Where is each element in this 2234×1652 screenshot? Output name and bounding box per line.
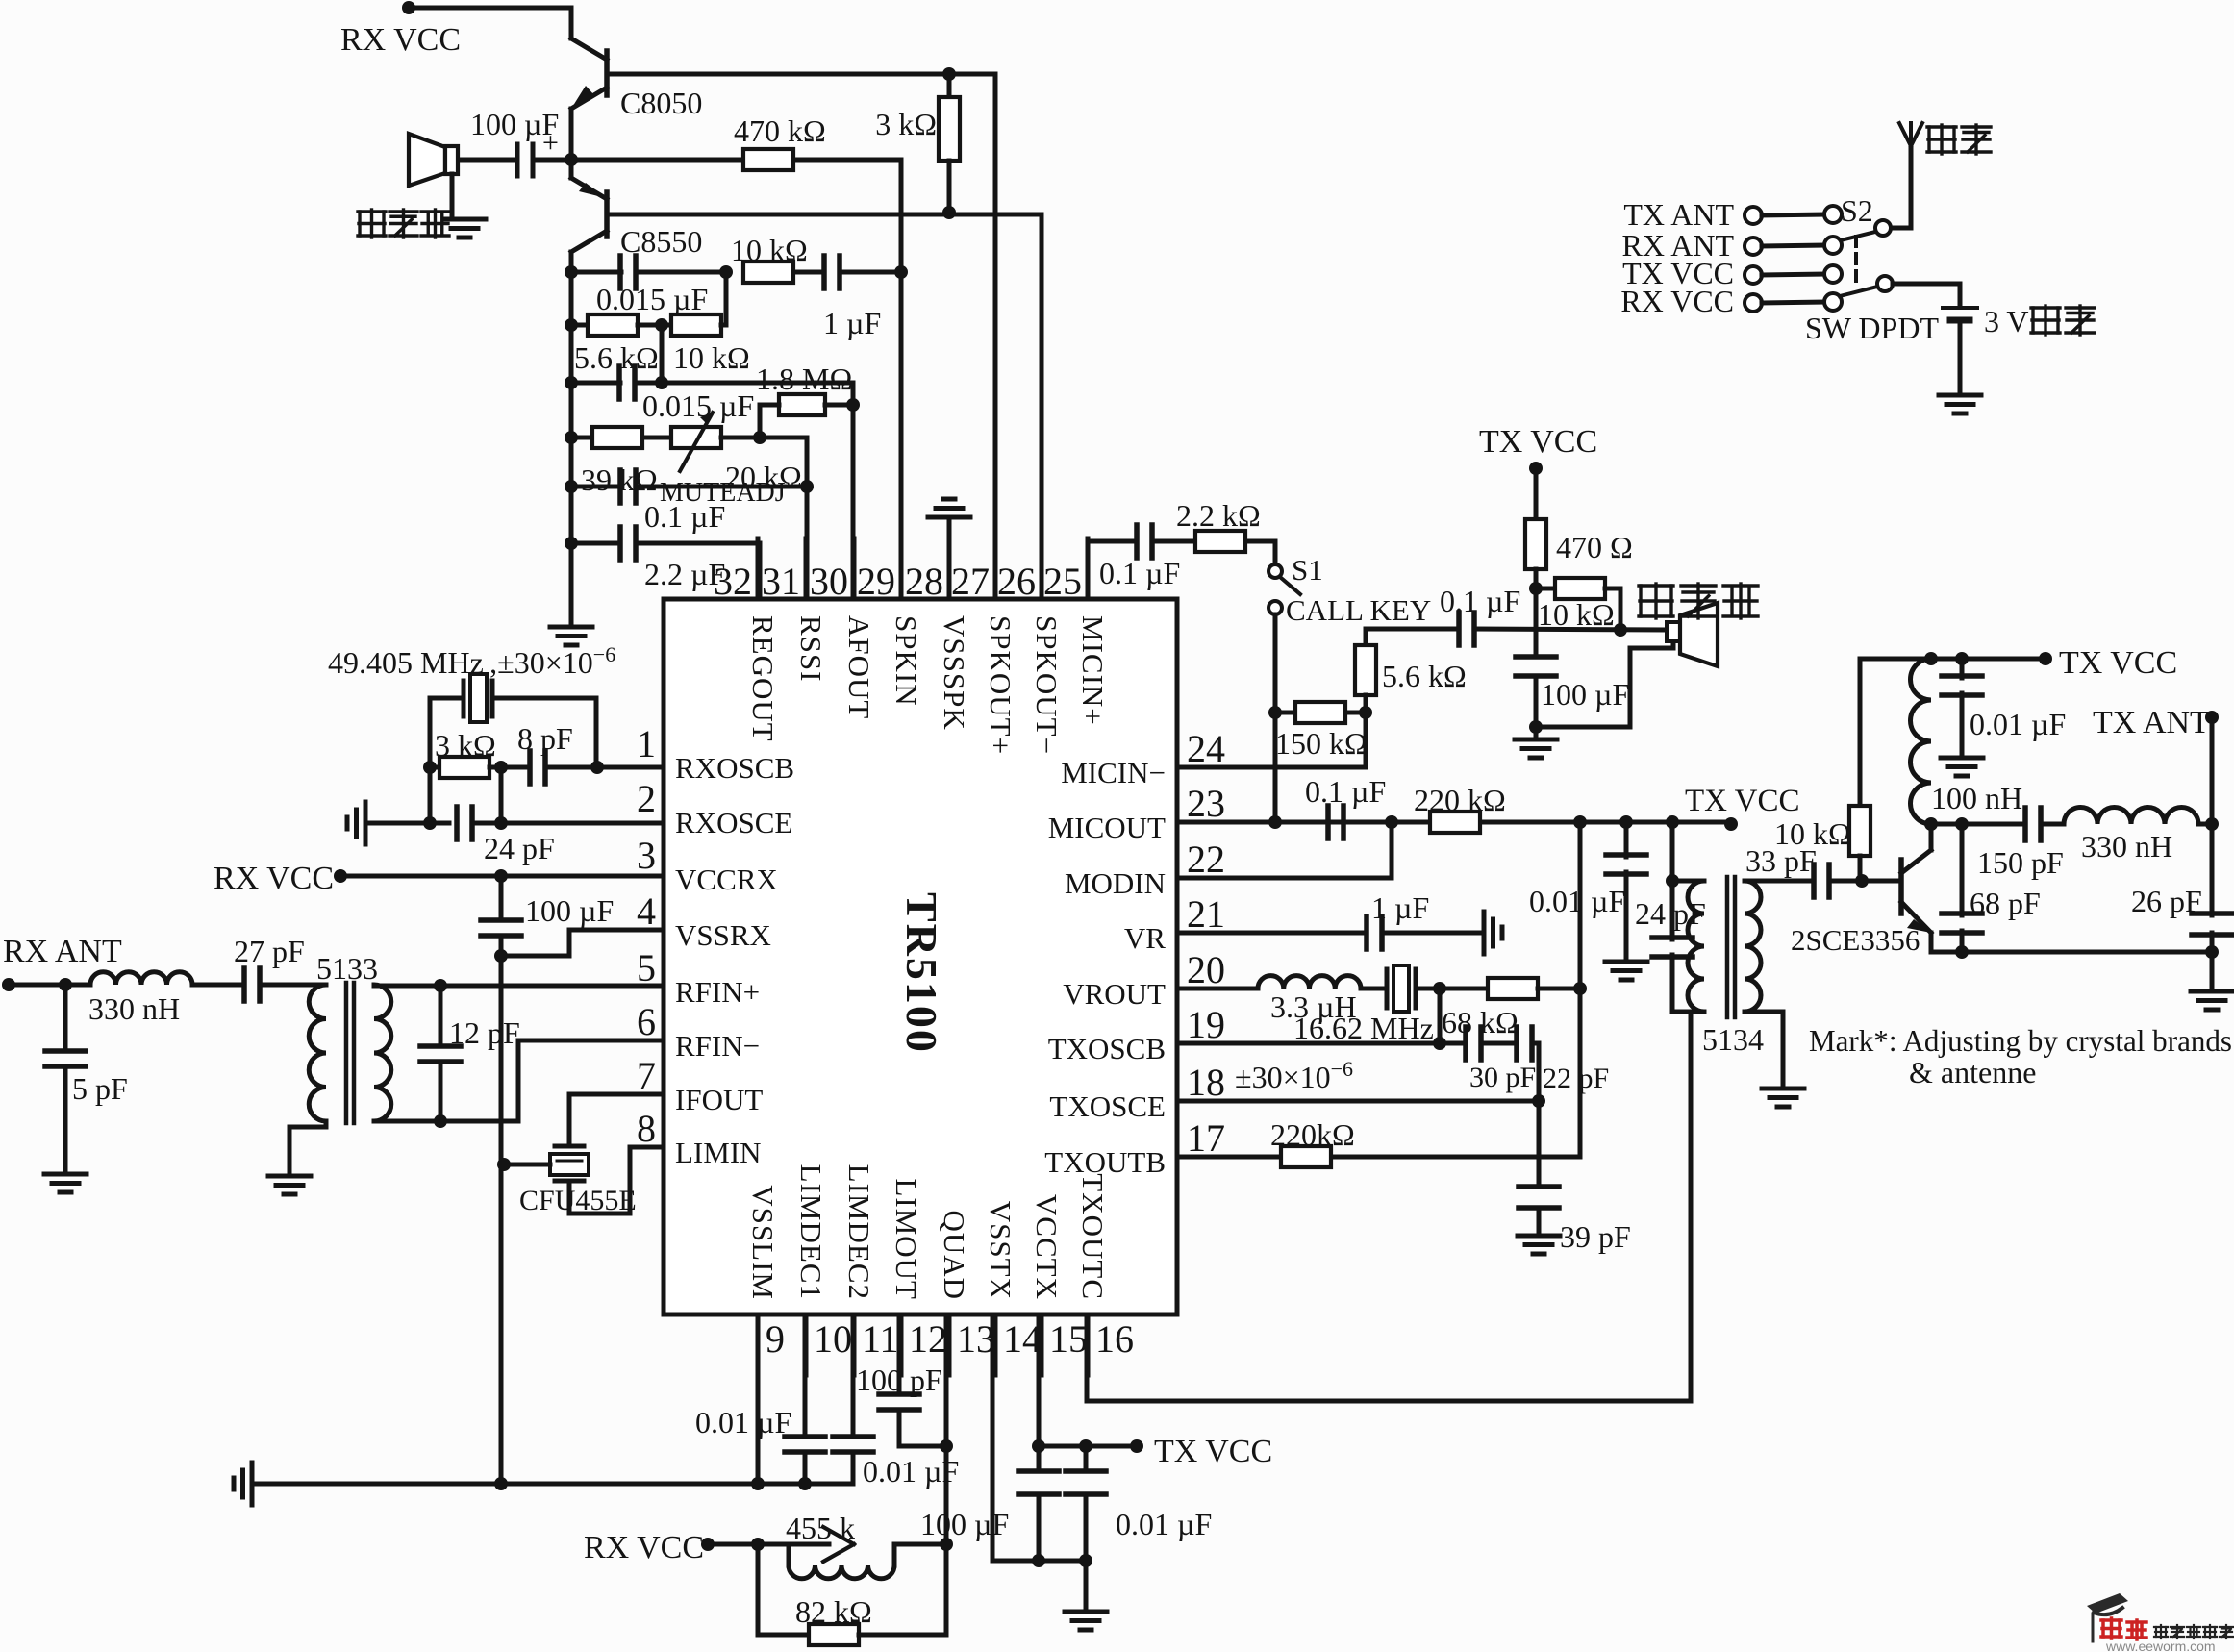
ground speaker bbox=[443, 219, 486, 238]
node row1 left bbox=[565, 265, 578, 279]
RX ANT terminal bbox=[2, 934, 122, 991]
ground 0.01uF TX bbox=[1941, 758, 1983, 776]
transformer T2 5134 primary bbox=[1672, 881, 1704, 1012]
wire Q2 base line bbox=[607, 213, 1042, 217]
wire pin13 down bbox=[940, 1314, 953, 1635]
wire row1-row2 link bbox=[724, 272, 729, 325]
pin 13 stub (bottom) bbox=[949, 1314, 995, 1375]
pin label MICIN− bbox=[1061, 756, 1166, 789]
node pin3 bypass bbox=[494, 869, 508, 883]
wire RX VCC to pin3 bbox=[340, 874, 664, 879]
capacitor 0.01uF (TX bypass) bbox=[1066, 1446, 1212, 1567]
pin 28 stub (top) bbox=[905, 538, 949, 603]
node Q2 base / 3k bottom bbox=[942, 206, 956, 219]
svg-text:0.015 µF: 0.015 µF bbox=[642, 388, 754, 423]
pin label VSSRX bbox=[675, 918, 771, 952]
node Q1 base / 3k top bbox=[942, 67, 956, 81]
svg-text:TX VCC: TX VCC bbox=[1685, 784, 1800, 818]
capacitor 100uF (RX bypass) bbox=[481, 876, 614, 956]
svg-text:14: 14 bbox=[1003, 1317, 1042, 1361]
pin label TXOUTB bbox=[1044, 1145, 1166, 1179]
node mic bias bbox=[1529, 582, 1543, 595]
ground battery bbox=[1939, 395, 1981, 413]
pin label LIMOUT bbox=[890, 1178, 923, 1300]
svg-text:& antenne: & antenne bbox=[1909, 1055, 2036, 1089]
switch S1 bbox=[1268, 541, 1431, 627]
capacitor 0.015uF row1 bbox=[571, 256, 726, 316]
svg-text:VSSTX: VSSTX bbox=[984, 1201, 1017, 1300]
capacitor 26pF bbox=[2131, 824, 2232, 952]
svg-text:16.62 MHz: 16.62 MHz bbox=[1293, 1011, 1434, 1045]
resistor 220k (txoutb) bbox=[1270, 1117, 1355, 1167]
battery BT1 3V bbox=[1943, 308, 1977, 395]
wire T2 secondary bottom bbox=[1745, 1012, 1783, 1089]
svg-text:6: 6 bbox=[637, 1000, 656, 1043]
TX ANT terminal bbox=[2093, 705, 2219, 824]
svg-text:VSSSPK: VSSSPK bbox=[938, 615, 971, 731]
svg-text:SW DPDT: SW DPDT bbox=[1805, 311, 1939, 345]
svg-text:0.01 µF: 0.01 µF bbox=[695, 1405, 791, 1439]
node 0.01uF TX top bbox=[1955, 652, 1969, 665]
label Mark note line1 bbox=[1809, 1023, 2232, 1058]
svg-text:RX VCC: RX VCC bbox=[584, 1530, 704, 1565]
svg-text:MICOUT: MICOUT bbox=[1048, 811, 1166, 844]
svg-text:TX VCC: TX VCC bbox=[2059, 645, 2177, 681]
potentiometer 20k MUTEADJ bbox=[642, 413, 807, 508]
capacitor 27pF bbox=[192, 934, 326, 1001]
pin 6 stub (left) bbox=[637, 1000, 656, 1043]
pin label AFOUT bbox=[842, 615, 876, 719]
wire to pin1 bbox=[545, 765, 664, 770]
svg-text:SPKOUT+: SPKOUT+ bbox=[984, 615, 1017, 755]
node collector bbox=[1924, 817, 1938, 831]
node 68k right bbox=[1573, 982, 1587, 995]
resistor 470R bbox=[1525, 468, 1633, 588]
svg-text:LIMDEC1: LIMDEC1 bbox=[794, 1164, 828, 1300]
pin 21 stub (right) bbox=[1187, 892, 1225, 936]
pin label RXOSCE bbox=[675, 806, 792, 839]
resistor 5.6k (mic) bbox=[1355, 629, 1467, 767]
svg-text:3 V: 3 V bbox=[1984, 304, 2029, 338]
svg-text:VROUT: VROUT bbox=[1063, 977, 1166, 1011]
node 24pF tap bbox=[1666, 815, 1679, 829]
svg-text:220kΩ: 220kΩ bbox=[1270, 1117, 1355, 1152]
wire pin22 step bbox=[1177, 822, 1392, 878]
pin 2 stub (left) bbox=[637, 777, 656, 820]
svg-text:TR5100: TR5100 bbox=[897, 892, 946, 1054]
RX VCC terminal (IF coil) bbox=[584, 1530, 715, 1565]
svg-text:0.01 µF: 0.01 µF bbox=[1970, 707, 2066, 741]
pin label IFOUT bbox=[675, 1083, 763, 1116]
svg-text:2SCE3356: 2SCE3356 bbox=[1791, 923, 1920, 957]
pin 31 stub (top) bbox=[762, 538, 806, 603]
svg-text:0.015 µF: 0.015 µF bbox=[596, 282, 708, 316]
node rail / long vertical bbox=[494, 1477, 508, 1490]
svg-text:RXOSCB: RXOSCB bbox=[675, 751, 794, 785]
capacitor 24pF bbox=[365, 807, 664, 865]
logo cap bbox=[2087, 1593, 2128, 1641]
IC U1 TR5100 body bbox=[664, 599, 1177, 1314]
label speaker (CJK) bbox=[358, 210, 449, 238]
svg-text:LIMDEC2: LIMDEC2 bbox=[842, 1164, 876, 1300]
resistor 220k (modin) bbox=[1343, 783, 1506, 833]
pin 11 stub (bottom) bbox=[854, 1314, 899, 1375]
crystal Y2 16.62MHz bbox=[1293, 965, 1488, 1045]
pin 22 stub (right) bbox=[1187, 838, 1225, 881]
logo chongchong red bbox=[2101, 1618, 2146, 1639]
logo url bbox=[2105, 1639, 2216, 1652]
svg-text:455 k: 455 k bbox=[786, 1511, 855, 1545]
svg-text:24: 24 bbox=[1187, 727, 1225, 770]
svg-text:5.6 kΩ: 5.6 kΩ bbox=[574, 340, 659, 375]
svg-text:+: + bbox=[542, 127, 559, 159]
node pin1 row mid bbox=[494, 761, 508, 774]
ground T1 primary bbox=[268, 1176, 311, 1194]
wire collector row bbox=[1931, 822, 2025, 827]
pin 24 stub (right) bbox=[1187, 727, 1225, 770]
node row2 mid bbox=[655, 318, 668, 332]
wire pin26 riser bbox=[1040, 214, 1044, 599]
pin 9 stub (bottom) bbox=[758, 1314, 785, 1375]
svg-text:2: 2 bbox=[637, 777, 656, 820]
svg-text:21: 21 bbox=[1187, 892, 1225, 936]
pin 16 stub (bottom) bbox=[1088, 1314, 1134, 1375]
svg-text:12 pF: 12 pF bbox=[449, 1015, 520, 1050]
inductor 330nH (TX) bbox=[2064, 808, 2212, 864]
wire mic bottom lead bbox=[1536, 640, 1673, 727]
pin 26 stub (top) bbox=[997, 538, 1042, 603]
capacitor 1uF row1 bbox=[793, 256, 901, 340]
pin label MICOUT bbox=[1048, 811, 1166, 844]
wire pin17 row bbox=[1177, 1155, 1580, 1160]
svg-text:39 pF: 39 pF bbox=[1560, 1219, 1631, 1254]
capacitor 100uF (TX bypass) bbox=[920, 1446, 1059, 1561]
pin 29 stub (top) bbox=[857, 538, 901, 603]
pin 3 stub (left) bbox=[637, 834, 656, 877]
pin label LIMDEC2 bbox=[842, 1164, 876, 1300]
capacitor 0.01uF pin11 bbox=[833, 1314, 959, 1489]
tunable inductor 455k IF coil bbox=[758, 1511, 946, 1579]
svg-text:TXOSCE: TXOSCE bbox=[1049, 1089, 1166, 1123]
pin label TXOUTC bbox=[1076, 1173, 1110, 1300]
svg-text:220 kΩ: 220 kΩ bbox=[1414, 783, 1506, 817]
pin 15 stub (bottom) bbox=[1042, 1314, 1088, 1375]
inductor 3.3uH bbox=[1177, 976, 1361, 1024]
node micout / modin bbox=[1385, 815, 1398, 829]
transformer T1 5133 label bbox=[316, 951, 378, 986]
capacitor 150pF bbox=[1977, 808, 2064, 880]
svg-text:CFU455E: CFU455E bbox=[519, 1185, 637, 1216]
svg-text:RFIN−: RFIN− bbox=[675, 1029, 760, 1063]
capacitor 2.2uF row6 bbox=[571, 527, 760, 591]
resistor 1.8M bbox=[756, 362, 860, 438]
node 100nH top bbox=[1924, 652, 1938, 665]
TX VCC terminal (mic) bbox=[1479, 424, 1597, 475]
svg-text:23: 23 bbox=[1187, 782, 1225, 825]
svg-text:12: 12 bbox=[909, 1317, 947, 1361]
node ant bbox=[9, 978, 90, 991]
switch S2 throw upper bbox=[1841, 220, 1891, 240]
svg-text:TX VCC: TX VCC bbox=[1479, 424, 1597, 460]
wire emitter rail bbox=[1931, 945, 2219, 959]
svg-text:68 pF: 68 pF bbox=[1970, 886, 2041, 920]
pin label QUAD bbox=[938, 1210, 971, 1300]
node pin1 row left bbox=[423, 761, 437, 774]
svg-text:RXOSCE: RXOSCE bbox=[675, 806, 792, 839]
resistor 10k (mic) bbox=[1536, 578, 1620, 632]
svg-text:VSSRX: VSSRX bbox=[675, 918, 771, 952]
capacitor 0.1uF row5 bbox=[571, 470, 807, 534]
pin label TXOSCB bbox=[1048, 1032, 1166, 1065]
svg-text:5: 5 bbox=[637, 946, 656, 989]
capacitor 33pF bbox=[1745, 843, 1862, 897]
svg-text:13: 13 bbox=[957, 1317, 995, 1361]
svg-text:100 µF: 100 µF bbox=[920, 1507, 1009, 1541]
svg-text:150 kΩ: 150 kΩ bbox=[1275, 726, 1368, 761]
pin label SPKOUT− bbox=[1030, 615, 1064, 755]
resistor 150k bbox=[1275, 702, 1368, 761]
wire T2 primary bottom to pin16 riser bbox=[1692, 1010, 1704, 1014]
pin label RXOSCB bbox=[675, 751, 794, 785]
switch S2 gang dashes bbox=[1854, 237, 1858, 281]
svg-text:8 pF: 8 pF bbox=[517, 721, 573, 756]
RX VCC terminal (pin3) bbox=[213, 861, 347, 896]
ground rotated (VR) bbox=[1484, 912, 1502, 954]
ground 5pF bbox=[44, 1174, 87, 1192]
svg-text:10 kΩ: 10 kΩ bbox=[1774, 816, 1851, 851]
node 0.01uF tap bbox=[1573, 815, 1587, 829]
svg-text:150 pF: 150 pF bbox=[1977, 845, 2064, 880]
label Mark note line2 bbox=[1909, 1055, 2036, 1089]
svg-text:REGOUT: REGOUT bbox=[746, 615, 780, 742]
svg-text:S1: S1 bbox=[1292, 553, 1323, 587]
switch S2 pole TXANT bbox=[1623, 193, 1872, 232]
svg-text:TXOUTC: TXOUTC bbox=[1076, 1173, 1110, 1300]
pin label RFIN− bbox=[675, 1029, 760, 1063]
capacitor 68pF bbox=[1942, 824, 2041, 952]
pin label LIMDEC1 bbox=[794, 1164, 828, 1300]
TX VCC row (output) bbox=[1860, 645, 2177, 681]
svg-text:10: 10 bbox=[814, 1317, 852, 1361]
wire pin32 riser bbox=[758, 543, 763, 599]
transistor Q2 C8550 bbox=[571, 178, 702, 259]
capacitor 8pF bbox=[489, 721, 573, 784]
capacitor 100pF pin12 bbox=[856, 1314, 946, 1446]
svg-text:24 pF: 24 pF bbox=[484, 831, 555, 865]
svg-text:2.2 kΩ: 2.2 kΩ bbox=[1176, 498, 1261, 533]
transformer T1 primary bbox=[289, 985, 326, 1176]
svg-text:16: 16 bbox=[1095, 1317, 1134, 1361]
svg-text:8: 8 bbox=[637, 1107, 656, 1150]
transformer T1 secondary bbox=[374, 985, 391, 1121]
svg-text:RFIN+: RFIN+ bbox=[675, 975, 760, 1009]
ground emitter rail bbox=[2191, 952, 2233, 1010]
svg-text:4: 4 bbox=[637, 889, 656, 933]
capacitor 30pF bbox=[1466, 1027, 1536, 1093]
wire row2-row3 link bbox=[655, 325, 668, 389]
svg-text:10 kΩ: 10 kΩ bbox=[1538, 597, 1615, 632]
pin 25 stub (top) bbox=[1043, 538, 1088, 603]
node 5134 junction bbox=[1666, 822, 1679, 888]
wire pin15 down bbox=[1032, 1314, 1045, 1453]
pin 20 stub (right) bbox=[1187, 948, 1225, 991]
ground TX bypass bbox=[1065, 1561, 1107, 1630]
svg-text:30: 30 bbox=[810, 560, 848, 603]
ground mic bbox=[1515, 727, 1557, 758]
wire pin5 row bbox=[374, 979, 664, 992]
svg-text:29: 29 bbox=[857, 560, 895, 603]
svg-text:AFOUT: AFOUT bbox=[842, 615, 876, 719]
resistor 3k (osc) bbox=[430, 728, 496, 778]
svg-text:330 nH: 330 nH bbox=[88, 991, 180, 1026]
svg-text:28: 28 bbox=[905, 560, 943, 603]
svg-text:IFOUT: IFOUT bbox=[675, 1083, 763, 1116]
ground 39pF bbox=[1518, 1236, 1560, 1254]
svg-text:7: 7 bbox=[637, 1054, 656, 1097]
capacitor 100uF (mic) bbox=[1516, 588, 1629, 734]
svg-text:1 µF: 1 µF bbox=[823, 306, 881, 340]
node TX ANT branch bbox=[2205, 817, 2219, 831]
wire RX VCC to Q1 collector bbox=[409, 8, 571, 38]
svg-text:100 nH: 100 nH bbox=[1931, 781, 2022, 815]
svg-text:18: 18 bbox=[1187, 1061, 1225, 1104]
node 150pF/68pF tap bbox=[1955, 817, 1969, 831]
svg-text:100 µF: 100 µF bbox=[1541, 677, 1629, 712]
node row5 left bbox=[565, 480, 578, 493]
resistor 82k bbox=[758, 1544, 946, 1645]
label SW DPDT bbox=[1805, 311, 1939, 345]
node VSSRX tap bbox=[494, 949, 508, 963]
node row2 left bbox=[565, 318, 578, 332]
pin 1 stub (left) bbox=[637, 722, 656, 765]
label battery 3V bbox=[1984, 304, 2095, 338]
node pin2 row a bbox=[423, 816, 437, 830]
svg-text:2.2 µF: 2.2 µF bbox=[644, 557, 725, 591]
resistor 3k (amp) bbox=[875, 74, 960, 213]
capacitor 0.015uF row3 bbox=[571, 366, 853, 423]
switch S2 pole TXVCC bbox=[1622, 256, 1842, 290]
speaker LS1 bbox=[409, 134, 458, 217]
wire Q1 base line bbox=[607, 72, 995, 77]
svg-text:QUAD: QUAD bbox=[938, 1210, 971, 1300]
RX VCC terminal (top) bbox=[340, 1, 461, 58]
svg-text:470 kΩ: 470 kΩ bbox=[734, 113, 826, 148]
pin label VCCRX bbox=[675, 863, 778, 896]
pin label REGOUT bbox=[746, 615, 780, 742]
pin 18 stub (right) bbox=[1187, 1061, 1225, 1104]
capacitor 22pF bbox=[1517, 1027, 1609, 1101]
svg-text:LIMOUT: LIMOUT bbox=[890, 1178, 923, 1300]
resistor 10k row1 bbox=[731, 233, 808, 283]
filter FL1 CFU455E bbox=[497, 1094, 664, 1216]
pin label LIMIN bbox=[675, 1136, 762, 1169]
svg-text:22 pF: 22 pF bbox=[1543, 1063, 1609, 1094]
pin 10 stub (bottom) bbox=[806, 1314, 852, 1375]
svg-text:CALL KEY: CALL KEY bbox=[1286, 593, 1431, 627]
svg-text:0.01 µF: 0.01 µF bbox=[1529, 884, 1625, 918]
pin label RSSI bbox=[794, 615, 828, 682]
svg-text:100 pF: 100 pF bbox=[856, 1363, 942, 1397]
svg-text:10 kΩ: 10 kΩ bbox=[673, 340, 750, 375]
svg-text:www.eeworm.com: www.eeworm.com bbox=[2105, 1639, 2216, 1652]
node row6 left bbox=[565, 537, 578, 550]
transformer T2 secondary bbox=[1745, 881, 1761, 1012]
svg-text:26: 26 bbox=[997, 560, 1036, 603]
ground left rail bbox=[550, 627, 592, 645]
node mic bbox=[1614, 623, 1627, 637]
capacitor 12pF bbox=[420, 986, 520, 1121]
svg-text:27: 27 bbox=[951, 560, 990, 603]
ground rotated (rail west end) bbox=[234, 1463, 252, 1505]
svg-text:3 kΩ: 3 kΩ bbox=[875, 107, 937, 141]
svg-text:SPKOUT−: SPKOUT− bbox=[1030, 615, 1064, 755]
svg-text:TX ANT: TX ANT bbox=[1623, 197, 1734, 232]
TX VCC terminal (bottom) bbox=[1039, 1434, 1272, 1469]
svg-text:SPKIN: SPKIN bbox=[890, 615, 923, 707]
inductor 100nH bbox=[1911, 659, 2023, 824]
pin 12 stub (bottom) bbox=[901, 1314, 947, 1375]
wire pin4 step bbox=[501, 930, 664, 956]
svg-text:LIMIN: LIMIN bbox=[675, 1136, 762, 1169]
pin 30 stub (top) bbox=[810, 538, 854, 603]
svg-text:26 pF: 26 pF bbox=[2131, 884, 2202, 918]
svg-text:MODIN: MODIN bbox=[1065, 866, 1166, 900]
pin 27 stub (top) bbox=[951, 538, 995, 603]
pin 23 stub (right) bbox=[1187, 782, 1225, 825]
resistor 470k bbox=[571, 113, 901, 170]
label microphone (CJK) bbox=[1639, 584, 1758, 618]
label ppm spec bbox=[1235, 1057, 1353, 1094]
antenna bbox=[1891, 123, 1922, 228]
wire pin18 row bbox=[1177, 1094, 1545, 1108]
svg-text:9: 9 bbox=[766, 1317, 785, 1361]
wire emitter rail upper bbox=[569, 109, 574, 178]
svg-text:17: 17 bbox=[1187, 1116, 1225, 1160]
transistor Q3 2SCE3356 bbox=[1791, 825, 1931, 957]
wire secondary bottom to pin6 bbox=[374, 1040, 664, 1128]
wire pin23 row bbox=[1177, 815, 1731, 829]
svg-text:RX VCC: RX VCC bbox=[1620, 284, 1734, 318]
resistor 39k row4 bbox=[571, 427, 658, 497]
svg-text:VCCRX: VCCRX bbox=[675, 863, 778, 896]
pin label VCCTX bbox=[1030, 1194, 1064, 1300]
wire vrout to pin19 bbox=[1433, 989, 1446, 1050]
wire pin16 route bbox=[1087, 1012, 1691, 1401]
node pin1 row right bbox=[590, 761, 604, 774]
svg-text:30 pF: 30 pF bbox=[1469, 1062, 1536, 1093]
svg-text:25: 25 bbox=[1043, 560, 1082, 603]
wire pin27 riser bbox=[993, 74, 998, 599]
wire pin19 row bbox=[1177, 1041, 1466, 1046]
resistor 5.6k row2 bbox=[571, 314, 659, 375]
svg-text:TX ANT: TX ANT bbox=[2093, 705, 2210, 740]
pin label VR bbox=[1124, 921, 1166, 955]
transformer T2 core bbox=[1727, 877, 1735, 1017]
svg-text:VCCTX: VCCTX bbox=[1030, 1194, 1064, 1300]
wire modout vertical bbox=[1578, 822, 1583, 1157]
capacitor 1uF (VR) bbox=[1177, 890, 1484, 949]
wire ground rail bbox=[252, 1482, 853, 1487]
wire left rail bbox=[569, 252, 574, 627]
crystal Y1 49.405MHz bbox=[430, 674, 596, 767]
svg-text:0.01 µF: 0.01 µF bbox=[1116, 1507, 1212, 1541]
resistor 10k (Q3 base) bbox=[1774, 659, 1870, 881]
resistor 10k row2 bbox=[638, 314, 750, 375]
resistor 2.2k bbox=[1176, 498, 1275, 552]
resistor 68k bbox=[1442, 978, 1580, 1039]
microphone MK1 bbox=[1667, 603, 1718, 666]
pin 32 stub (top) bbox=[714, 538, 758, 603]
